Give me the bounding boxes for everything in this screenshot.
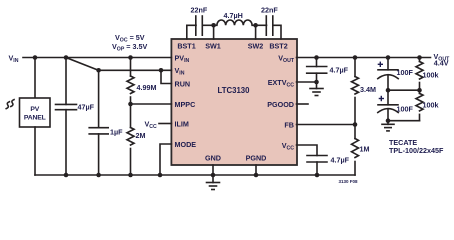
svg-text:2M: 2M xyxy=(136,131,146,140)
junction 3.4M tap xyxy=(353,55,358,60)
svg-text:100k: 100k xyxy=(423,101,439,110)
svg-text:100F: 100F xyxy=(397,68,414,77)
svg-text:PGOOD: PGOOD xyxy=(267,100,294,109)
junction rail VCC cap xyxy=(315,173,320,178)
svg-text:3130 F08: 3130 F08 xyxy=(339,179,359,184)
wire diagonal VIN to lower branch xyxy=(66,58,99,71)
svg-text:4.7µF: 4.7µF xyxy=(330,66,349,75)
capacitor COUT 4.7uF xyxy=(307,58,327,83)
svg-text:GND: GND xyxy=(205,154,221,163)
svg-text:SW2: SW2 xyxy=(248,41,264,50)
svg-text:4.99M: 4.99M xyxy=(137,83,157,92)
svg-text:4.7µF: 4.7µF xyxy=(331,155,350,164)
junction MPPC node xyxy=(128,102,133,107)
svg-text:PV: PV xyxy=(30,106,39,113)
junction supercap bottom xyxy=(386,118,391,123)
junction PV panel tap xyxy=(33,55,38,60)
supercap C2 100F xyxy=(378,90,398,121)
junction rail 2M xyxy=(128,173,133,178)
svg-text:MODE: MODE xyxy=(175,140,197,149)
wire BST1 to flying cap xyxy=(187,25,196,39)
svg-text:100F: 100F xyxy=(397,105,414,114)
ground symbol main xyxy=(207,175,220,190)
svg-text:TPL-100/22x45F: TPL-100/22x45F xyxy=(389,146,444,155)
supercap C1 100F xyxy=(378,58,398,91)
junction supercap midpoint xyxy=(386,88,391,93)
junction SW2 xyxy=(253,23,258,28)
wire PGND pin stub xyxy=(255,165,257,175)
ground symbol supercap xyxy=(382,121,394,131)
plus sign C2 xyxy=(379,96,384,101)
capacitor CB2 22nF xyxy=(256,16,273,35)
svg-text:1µF: 1µF xyxy=(110,128,123,137)
svg-text:100k: 100k xyxy=(423,71,439,80)
light rays squiggle xyxy=(6,100,14,109)
svg-text:SW1: SW1 xyxy=(205,41,221,50)
svg-text:47µF: 47µF xyxy=(78,102,95,111)
capacitor 1uF xyxy=(89,70,108,175)
wire lower VIN branch to VIN pin xyxy=(99,69,172,71)
wire MPPC xyxy=(131,103,172,105)
svg-text:BST2: BST2 xyxy=(269,41,287,50)
junction RUN tap xyxy=(159,68,164,73)
resistor 1M xyxy=(352,125,359,176)
junction rail PGND xyxy=(254,173,259,178)
wire MODE to ground xyxy=(160,144,171,175)
wire RUN pin xyxy=(161,70,171,83)
svg-text:1M: 1M xyxy=(360,145,370,154)
junction 100k tap xyxy=(417,55,422,60)
PV panel source xyxy=(20,58,51,176)
inductor L1 4.7uH xyxy=(214,20,256,25)
wire supercap mid tie xyxy=(388,89,420,91)
resistor 2M xyxy=(127,104,134,175)
svg-text:4.7µH: 4.7µH xyxy=(224,11,243,20)
wire GND pin stub xyxy=(212,165,214,175)
svg-text:MPPC: MPPC xyxy=(175,100,196,109)
svg-text:PGND: PGND xyxy=(246,154,267,163)
junction rail GND xyxy=(211,173,216,178)
svg-text:FB: FB xyxy=(284,120,294,129)
svg-text:22nF: 22nF xyxy=(191,5,208,14)
capacitor CB1 22nF xyxy=(196,16,214,35)
plus sign C1 xyxy=(378,62,383,67)
capacitor CVCC 4.7uF xyxy=(307,156,327,176)
IC U1 LTC3130 buck-boost converter body xyxy=(171,39,297,165)
wire FB xyxy=(297,124,356,126)
wire SW1 stub xyxy=(213,25,215,39)
svg-text:PANEL: PANEL xyxy=(24,114,46,121)
junction 100k midpoint xyxy=(417,88,422,93)
junction supercap tap xyxy=(386,55,391,60)
junction divider tap xyxy=(128,55,133,60)
junction rail 47uF xyxy=(64,173,69,178)
capacitor CIN 47uF xyxy=(56,58,77,176)
wire VCC pin to cap xyxy=(297,145,318,156)
junction SW1 xyxy=(211,23,216,28)
junction rail MODE xyxy=(158,173,163,178)
wire ground rail xyxy=(35,174,355,176)
wire VOUT rail xyxy=(297,57,431,59)
wire flying cap to BST2 xyxy=(273,25,281,39)
svg-text:22nF: 22nF xyxy=(261,5,278,14)
junction FB node xyxy=(353,122,358,127)
junction rail 1uF xyxy=(96,173,101,178)
svg-text:BST1: BST1 xyxy=(177,41,195,50)
svg-text:4.4V: 4.4V xyxy=(434,59,449,68)
wire SW2 stub xyxy=(255,25,257,39)
wire PGOOD stub xyxy=(297,103,309,105)
junction 47uF tap xyxy=(64,55,69,60)
svg-text:RUN: RUN xyxy=(175,79,191,88)
junction EXTVCC node xyxy=(314,80,319,85)
resistor 3.4M xyxy=(352,58,359,125)
svg-text:ILIM: ILIM xyxy=(175,119,189,128)
ground symbol EXTVCC xyxy=(310,82,323,96)
junction COUT tap xyxy=(314,55,319,60)
resistor 4.99M xyxy=(127,58,134,105)
wire VIN rail to PVIN pin xyxy=(23,57,171,59)
resistor 100k top xyxy=(416,58,423,91)
wire 100k bottom to supercap bottom xyxy=(388,120,420,122)
resistor 100k bottom xyxy=(416,90,423,121)
wire ILIM xyxy=(159,123,171,125)
junction 1uF tap xyxy=(96,68,101,73)
svg-text:LTC3130: LTC3130 xyxy=(218,86,251,95)
svg-text:3.4M: 3.4M xyxy=(360,85,376,94)
wire EXTVCC xyxy=(297,81,317,83)
